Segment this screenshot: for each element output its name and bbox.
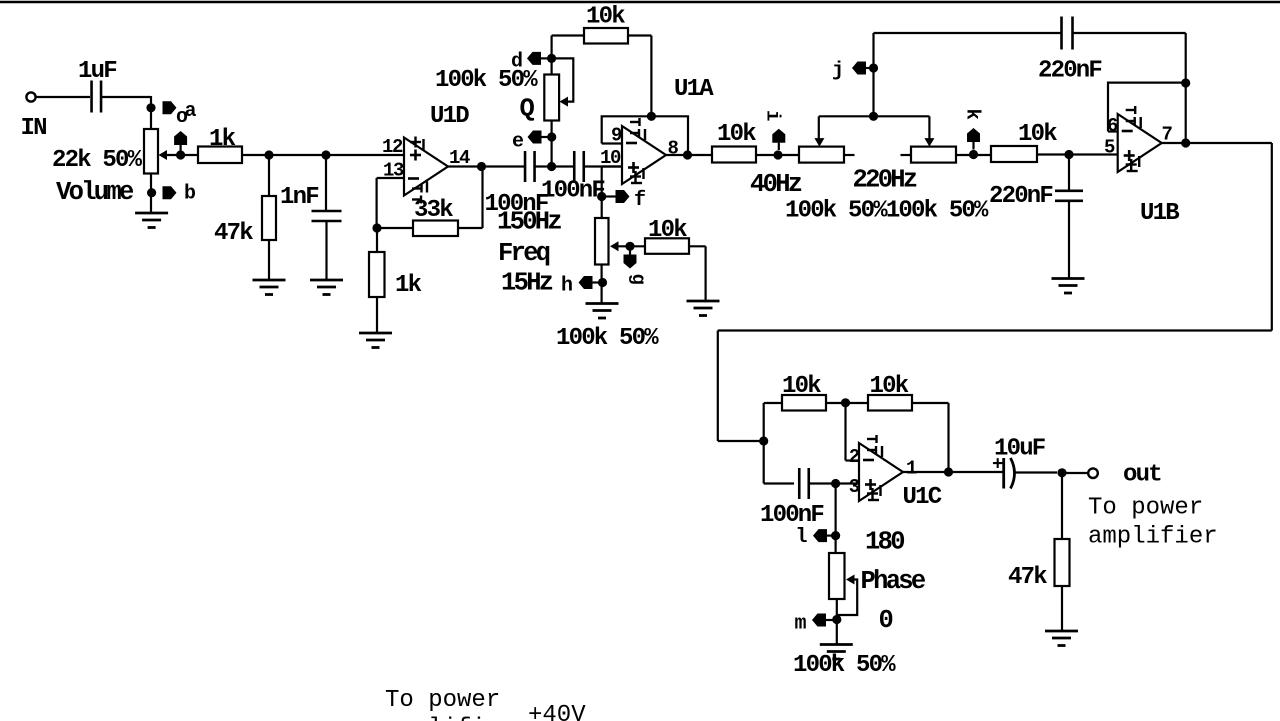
wire 220nF to corner (1073, 32, 1186, 34)
svg-text:g: g (627, 274, 649, 285)
op-amp U1D (404, 138, 448, 196)
wire node up to 10k (763, 403, 765, 441)
svg-text:i: i (762, 110, 784, 121)
wire node down to pin2 (844, 403, 846, 461)
ground below 10k freq (687, 301, 720, 316)
wire pot bottom to m (836, 599, 838, 625)
node h junction (598, 278, 607, 287)
wire h stub (593, 281, 602, 283)
svg-text:220nF: 220nF (989, 183, 1052, 210)
svg-text:Phase: Phase (861, 567, 926, 596)
terminal arrow a (163, 101, 177, 114)
svg-text:100k 50%100k 50%: 100k 50%100k 50% (785, 198, 989, 225)
svg-text:47k: 47k (214, 220, 253, 247)
svg-text:1uF: 1uF (78, 58, 116, 85)
svg-text:9: 9 (611, 125, 622, 147)
svg-text:2: 2 (849, 446, 860, 468)
resistor R3 33k (413, 221, 458, 237)
wiper node (176, 150, 185, 159)
resistor R7 10k (712, 147, 756, 163)
resistor R10 10k (868, 395, 912, 411)
node 1nF branch (321, 150, 330, 159)
wire l stub (827, 534, 836, 536)
wire IN to C1 (36, 96, 90, 98)
svg-text:220nF: 220nF (1038, 58, 1101, 85)
svg-text:1: 1 (906, 458, 917, 480)
output terminal out (1088, 468, 1098, 478)
wire down to node f (601, 167, 603, 197)
resistor R1 1k (198, 147, 242, 164)
wire U1C output (903, 471, 1003, 473)
node d junction (547, 54, 556, 63)
wire e stub (542, 136, 552, 138)
svg-text:100k 50%: 100k 50% (556, 325, 659, 352)
wire m stub (826, 619, 837, 621)
resistor R4 1k (369, 252, 385, 297)
svg-text:8: 8 (668, 138, 679, 160)
node 33k junction (372, 223, 381, 232)
wire pin13 stub (377, 177, 404, 179)
resistor R6 10k freq (645, 238, 689, 254)
wire U1B output (1162, 142, 1272, 144)
node l junction (831, 531, 840, 540)
svg-text:100nF: 100nF (541, 178, 604, 205)
wire between 10k resistors (826, 402, 868, 404)
op-amp U1C (859, 443, 903, 501)
svg-text:l: l (796, 526, 808, 549)
svg-text:47k: 47k (1008, 564, 1047, 591)
wire stub right of 40Hz pot (845, 154, 855, 156)
wire node to 33k (377, 227, 413, 229)
wire 10k to corner (912, 402, 949, 404)
node e junction (547, 132, 556, 141)
ground below freq pot (586, 304, 619, 319)
wire d stub (541, 57, 552, 59)
volume wiper arrow (159, 150, 168, 160)
svg-text:U1A: U1A (674, 76, 714, 103)
svg-text:150Hz: 150Hz (497, 208, 561, 237)
resistor R5 10k top (584, 28, 628, 44)
ground below 1nF (310, 280, 343, 295)
wiper stem 40Hz (818, 116, 820, 139)
node k junction (969, 150, 978, 159)
capacitor 100nF second (574, 151, 584, 182)
ground below phase pot (820, 645, 853, 660)
svg-text:180: 180 (865, 528, 904, 557)
capacitor 1nF (312, 211, 342, 221)
wire 100nF to pin3 (809, 482, 859, 484)
node g junction (625, 242, 634, 251)
svg-text:j: j (832, 60, 843, 83)
resistor R9 10k (782, 395, 826, 411)
svg-text:10k: 10k (586, 4, 625, 31)
node U1B output (1181, 138, 1190, 147)
node U1D output (477, 162, 486, 171)
node caps junction (547, 162, 556, 171)
wire down to ground (704, 246, 706, 301)
svg-text:out: out (1123, 462, 1161, 489)
wire down to phase pot (834, 484, 836, 554)
wire phase wiper return (837, 580, 857, 616)
wire feedback up to output (481, 167, 483, 229)
wire d node vertical (550, 36, 552, 75)
wire pin9 stub (602, 142, 622, 144)
wire down to U1A box (650, 36, 652, 117)
wire down to volume pot (150, 96, 152, 130)
resistor R11 47k (1055, 539, 1070, 586)
U1B feedback box (1108, 83, 1186, 132)
wire to 100nF (764, 482, 794, 484)
svg-text:amplifier: amplifier (385, 715, 515, 721)
terminal arrow b (163, 186, 177, 199)
wire left vertical down (717, 331, 719, 442)
wire U1A output (666, 154, 712, 156)
capacitor 100nF first (525, 151, 535, 182)
svg-text:U1B: U1B (1140, 200, 1179, 227)
node pin3 junction (831, 479, 840, 488)
input terminal IN (26, 92, 35, 101)
freq wiper arrow (610, 241, 619, 251)
wire into U1C node (718, 440, 764, 442)
wire right vertical down (1271, 143, 1273, 331)
terminal arrow e (528, 131, 542, 144)
wiper terminal up arrow (174, 131, 187, 145)
svg-text:e: e (512, 131, 524, 154)
node out junction (1057, 468, 1066, 477)
wire between caps (535, 165, 574, 167)
wire 220nF to ground (1068, 201, 1070, 279)
top border line (0, 1, 1280, 3)
wire 10k to corner (689, 245, 706, 247)
node b junction (147, 188, 156, 197)
wire node down (763, 441, 765, 484)
wire out node to 47k (1061, 473, 1063, 539)
wire to 1nF (325, 155, 327, 210)
ground below volume pot (135, 213, 168, 228)
wire pot to ground (150, 174, 152, 214)
wire freq wiper to 10k (619, 245, 646, 247)
svg-text:k: k (962, 109, 984, 120)
svg-text:b: b (184, 183, 196, 206)
wire 10k top right (628, 34, 651, 36)
svg-text:U1D: U1D (430, 103, 469, 130)
svg-text:0: 0 (879, 606, 893, 635)
svg-text:100k 50%: 100k 50% (435, 67, 538, 94)
svg-text:12: 12 (382, 136, 403, 158)
wire pin2 stub (846, 459, 860, 461)
wiper arrow 220Hz (924, 138, 934, 147)
wire f to freq pot (601, 197, 603, 219)
Q wiper arrow (560, 97, 569, 107)
wire freq pot to ground (600, 265, 602, 304)
node 220nF shunt (1064, 150, 1073, 159)
capacitor C1 1uF (92, 81, 102, 113)
svg-text:1nF: 1nF (280, 184, 318, 211)
wire j rail (819, 115, 930, 117)
svg-text:m: m (795, 613, 807, 636)
node j junction (869, 63, 878, 72)
svg-text:d: d (511, 51, 522, 74)
svg-text:5: 5 (1104, 137, 1115, 159)
ground below 220nF (1052, 279, 1085, 294)
wire cap to U1A pin10 (584, 165, 622, 167)
svg-text:100k 50%: 100k 50% (793, 652, 896, 679)
terminal arrow d (527, 52, 541, 65)
node 47k branch (264, 150, 273, 159)
potentiometer 220Hz 100k (911, 147, 956, 163)
svg-text:h: h (561, 275, 572, 298)
capacitor 10uF polarized (1004, 458, 1015, 489)
wire to 47k (268, 155, 270, 196)
g branch stem and arrow (629, 246, 631, 257)
svg-text:+: + (992, 454, 1003, 476)
terminal arrow j (852, 62, 866, 75)
i terminal up arrow (772, 129, 785, 143)
svg-text:10k: 10k (717, 121, 756, 148)
svg-text:100nF: 100nF (760, 502, 823, 529)
node j rail junction (869, 112, 878, 121)
node between 10k (841, 398, 850, 407)
wire 1k to ground (376, 297, 378, 333)
svg-text:3: 3 (849, 476, 860, 498)
ground below 47k (253, 280, 286, 295)
wire C1 to node a (102, 96, 152, 98)
wire wiper to R1 (167, 154, 199, 156)
svg-text:amplifier: amplifier (1088, 524, 1218, 551)
svg-text:15Hz: 15Hz (501, 269, 553, 298)
svg-text:To power: To power (1088, 495, 1203, 522)
wire 1nF to ground (325, 221, 327, 280)
node f junction (597, 192, 606, 201)
wire long horizontal (718, 329, 1272, 331)
potentiometer Volume 22k (144, 129, 158, 174)
svg-text:22k 50%: 22k 50% (52, 147, 143, 174)
potentiometer 40Hz 100k (799, 147, 844, 163)
wire to 10k top (552, 34, 584, 36)
wire stub left of 220Hz pot (901, 154, 912, 156)
resistor R8 10k (991, 146, 1037, 162)
wire e node vertical (550, 121, 552, 167)
potentiometer Phase 100k (829, 553, 845, 599)
node U1B box corner (1181, 78, 1190, 87)
phase wiper arrow (846, 575, 855, 585)
svg-text:Freq: Freq (498, 239, 550, 268)
wire 10k to U1B pin5 (1037, 153, 1118, 155)
potentiometer Q 100k (544, 75, 559, 121)
wire R7 to pot 40Hz (756, 154, 799, 156)
node U1A box top (647, 112, 656, 121)
svg-text:40Hz: 40Hz (750, 170, 802, 199)
svg-text:10k: 10k (1018, 121, 1057, 148)
wire pin10 stub (602, 165, 622, 167)
wiper arrow 40Hz (814, 138, 824, 147)
svg-text:220Hz: 220Hz (853, 166, 917, 195)
ground below 47k out (1045, 631, 1078, 646)
ground below 1k (359, 333, 392, 348)
wire pin6 stub (1108, 130, 1118, 132)
wire down to 220nF (1068, 155, 1070, 192)
svg-text:1k: 1k (395, 272, 422, 299)
wire f stub (602, 195, 616, 197)
wire 33k to corner (458, 227, 483, 229)
wire pin13 down (376, 178, 378, 228)
svg-text:6: 6 (1107, 115, 1118, 137)
capacitor 220nF shunt (1055, 191, 1083, 201)
wire j to 220nF (874, 32, 1062, 34)
svg-text:Volume: Volume (56, 178, 134, 207)
terminal arrow l (813, 529, 827, 542)
svg-text:U1C: U1C (903, 484, 942, 511)
node m junction (832, 615, 841, 624)
wire Q wiper (552, 58, 574, 101)
node U1C output (944, 467, 953, 476)
wire down to U1B output (1185, 33, 1187, 143)
wire node to 1k vertical (376, 228, 378, 252)
svg-text:f: f (634, 189, 645, 212)
node U1C input (759, 436, 768, 445)
wire 47k to ground (1061, 586, 1063, 631)
capacitor 100nF U1C (799, 468, 809, 499)
terminal arrow h (579, 276, 593, 289)
svg-text:IN: IN (21, 115, 47, 142)
node i junction (773, 150, 782, 159)
wire m to ground (836, 625, 838, 645)
resistor R2 47k (262, 196, 276, 240)
op-amp U1B (1118, 114, 1162, 172)
svg-text:a: a (185, 100, 197, 123)
terminal arrow m (812, 614, 826, 627)
wire j vertical (872, 33, 874, 116)
node U1A output (683, 150, 692, 159)
capacitor 220nF top (1062, 17, 1073, 50)
wire 10uF to out node (1015, 471, 1058, 473)
node a junction (146, 103, 155, 112)
potentiometer Freq 100k (595, 218, 609, 265)
U1A feedback box (602, 116, 688, 155)
wire to out terminal (1066, 472, 1088, 474)
wire R1 to U1D pin12 (242, 154, 404, 156)
svg-text:To power: To power (385, 687, 500, 714)
op-amp U1A (622, 126, 666, 184)
wire U1D output (447, 165, 525, 167)
k terminal up arrow (967, 128, 980, 142)
wire j stub (866, 67, 874, 69)
wiper stem 220Hz (928, 116, 930, 139)
terminal arrow f (616, 190, 630, 203)
wire down to U1C output (947, 403, 949, 472)
svg-text:+40V: +40V (528, 702, 586, 721)
wire corner to 10k first (764, 402, 782, 404)
wire 220Hz pot to 10k (956, 154, 991, 156)
wire 47k to ground (268, 240, 270, 280)
